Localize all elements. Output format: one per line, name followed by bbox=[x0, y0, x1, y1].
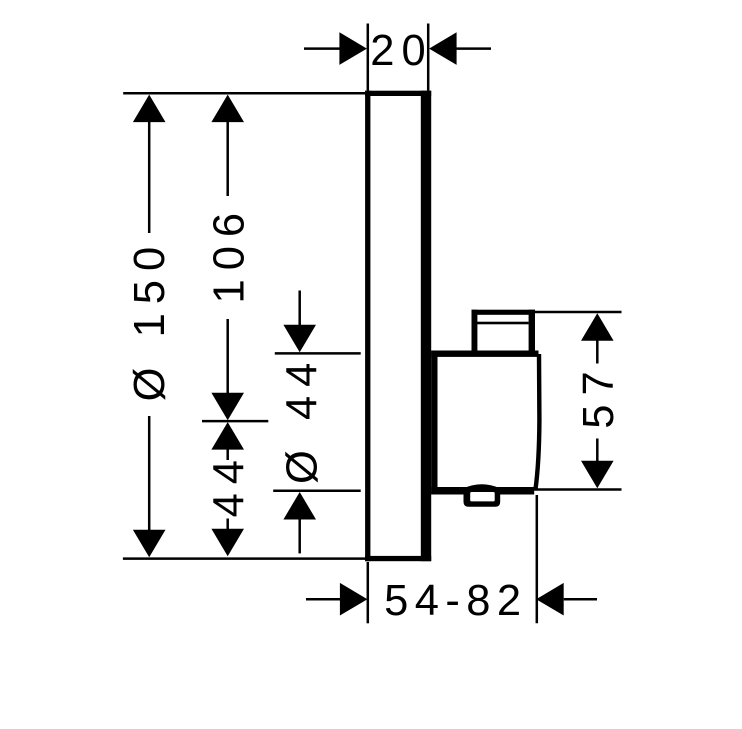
dim 54-82: left leader line bbox=[306, 598, 341, 601]
dim 54-82: left arrowhead bbox=[340, 583, 368, 616]
svg-text:20: 20 bbox=[370, 27, 432, 75]
dim D44: top approach line bbox=[298, 291, 301, 328]
dim 44: lower stub line bbox=[226, 519, 229, 530]
dim 20: left leader line bbox=[304, 47, 341, 50]
dim 54-82: left extension line bbox=[367, 562, 370, 623]
dim D150: bottom arrowhead bbox=[133, 530, 166, 558]
dim D44: bottom arrowhead (up) bbox=[283, 492, 316, 520]
dim 54-82: right leader line bbox=[564, 598, 597, 601]
dim 44: top arrowhead bbox=[211, 422, 244, 450]
dim 106: top arrowhead bbox=[211, 95, 244, 123]
wall plate outline bbox=[365, 91, 431, 562]
dim D44: bottom tick line bbox=[273, 489, 361, 492]
dim 20: right extension line bbox=[427, 24, 430, 91]
bottom tab inner hole bbox=[470, 492, 495, 501]
svg-text:54-82: 54-82 bbox=[384, 577, 527, 625]
dim 106: upper line bbox=[226, 122, 229, 197]
left bottom extension line bbox=[123, 557, 365, 560]
dim 106: lower line bbox=[226, 319, 229, 394]
dim 106/44: shared tick line bbox=[202, 420, 268, 423]
dim 20: left extension line bbox=[367, 24, 370, 91]
dim 20: right arrowhead bbox=[429, 32, 457, 65]
valve body bbox=[431, 351, 538, 495]
svg-text:Ø 150: Ø 150 bbox=[126, 238, 174, 402]
svg-text:57: 57 bbox=[575, 362, 623, 428]
top knob (cartridge stem) bbox=[472, 310, 536, 355]
left top extension line bbox=[123, 92, 365, 95]
dim 57: lower line bbox=[596, 439, 599, 462]
svg-text:106: 106 bbox=[205, 204, 253, 304]
dim D150: lower line bbox=[148, 416, 151, 531]
dim D44: bottom approach line bbox=[298, 519, 301, 553]
dim 44: bottom arrowhead bbox=[211, 529, 244, 557]
dim D44: top arrowhead (down) bbox=[283, 325, 316, 353]
dim 106: bottom arrowhead bbox=[211, 393, 244, 421]
dim 20: right leader line bbox=[456, 47, 492, 50]
dim 57: top arrowhead bbox=[581, 313, 614, 341]
valve body right curved edge bbox=[535, 354, 539, 490]
svg-text:44: 44 bbox=[205, 451, 253, 517]
bottom tab bbox=[464, 484, 501, 507]
dim D150: top arrowhead bbox=[133, 95, 166, 123]
dim 44: upper stub line bbox=[226, 449, 229, 460]
dim 20: left arrowhead bbox=[339, 32, 367, 65]
svg-text:Ø 44: Ø 44 bbox=[279, 354, 327, 484]
dim D44: top tick line bbox=[275, 352, 361, 355]
dim D150: upper line bbox=[148, 122, 151, 234]
dim 57: bottom extension line bbox=[530, 488, 622, 491]
dim 57: upper line bbox=[596, 340, 599, 364]
dim 54-82: right arrowhead bbox=[536, 583, 564, 616]
dim 54-82: right extension line bbox=[536, 495, 539, 623]
dim 57: bottom arrowhead bbox=[581, 461, 614, 489]
dim 57: top extension line bbox=[535, 311, 622, 314]
